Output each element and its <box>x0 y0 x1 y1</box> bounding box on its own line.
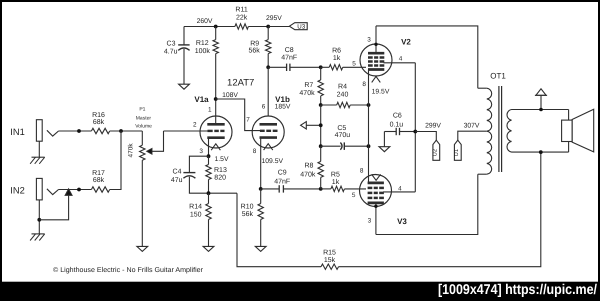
svg-text:2: 2 <box>193 122 197 129</box>
svg-text:4: 4 <box>398 185 402 192</box>
node R4-cathode bus <box>367 103 371 107</box>
wire J1 sleeve <box>38 141 40 157</box>
svg-text:47nF: 47nF <box>274 178 290 185</box>
node phase bus top <box>319 65 323 69</box>
ground C6 <box>379 147 390 152</box>
node V1a cathode 1.5V <box>207 154 211 158</box>
svg-text:470k: 470k <box>127 143 134 158</box>
svg-text:295V: 295V <box>266 15 282 22</box>
svg-text:© Lighthouse Electric - No Fri: © Lighthouse Electric - No Frills Guitar… <box>53 266 204 274</box>
svg-text:1.5V: 1.5V <box>215 156 229 163</box>
svg-text:56k: 56k <box>249 46 261 54</box>
svg-text:260V: 260V <box>197 18 213 25</box>
svg-text:R13: R13 <box>214 167 227 174</box>
svg-text:R6: R6 <box>332 48 341 55</box>
svg-text:R4: R4 <box>338 84 347 91</box>
node IN2 <box>77 188 81 192</box>
wire top rail 260V-295V <box>184 26 235 28</box>
svg-text:7: 7 <box>246 117 250 124</box>
svg-text:5: 5 <box>352 192 356 199</box>
OT1 secondary winding <box>507 110 512 153</box>
svg-text:IN1: IN1 <box>10 127 24 137</box>
ground R14 <box>203 246 214 251</box>
V1b grid <box>260 130 265 132</box>
svg-text:R16: R16 <box>92 112 105 119</box>
svg-text:109.5V: 109.5V <box>262 158 284 165</box>
svg-text:1k: 1k <box>332 178 340 186</box>
resistor R8 <box>320 146 322 161</box>
wire to U2 <box>415 132 436 141</box>
svg-text:3: 3 <box>367 37 371 44</box>
wire J2 switch to ground <box>39 195 68 220</box>
wire R16 to P1 <box>110 130 143 132</box>
node C5 junction <box>319 144 323 148</box>
resistor R9 <box>267 27 269 40</box>
svg-text:Volume: Volume <box>135 124 152 130</box>
node C8-R9 <box>266 65 270 69</box>
connector U2 <box>433 140 440 160</box>
wire bus mid <box>320 105 322 146</box>
svg-text:R9: R9 <box>250 40 259 47</box>
resistor R10 <box>260 189 262 204</box>
OT1 primary lead top <box>478 87 487 89</box>
P1 wiper <box>147 148 152 154</box>
svg-text:4.7u: 4.7u <box>164 48 178 55</box>
chassis ground J2 <box>32 233 45 235</box>
resistor R15 <box>321 264 339 269</box>
capacitor C5 <box>321 145 341 147</box>
OT1 core <box>498 86 500 172</box>
svg-text:5: 5 <box>352 60 356 67</box>
wire 108V to V1b grid <box>216 99 260 131</box>
svg-text:R15: R15 <box>323 250 336 257</box>
resistor R11 <box>235 24 249 29</box>
wire C4 bottom <box>189 177 237 193</box>
node R16-R17 junction <box>119 129 123 133</box>
wire secondary bottom <box>512 151 569 153</box>
connector flag left arrow <box>301 122 307 129</box>
svg-text:R8: R8 <box>304 162 313 169</box>
svg-text:47nF: 47nF <box>281 54 297 61</box>
node R7-R4 <box>319 103 323 107</box>
capacitor C6 <box>384 131 396 133</box>
V3 heater notch <box>372 174 381 180</box>
flag output triangle <box>540 95 542 109</box>
svg-text:150: 150 <box>190 211 202 218</box>
svg-text:47u: 47u <box>171 177 183 184</box>
svg-text:R5: R5 <box>331 171 340 178</box>
connector U1 <box>454 140 461 160</box>
node screen-C6-U2 <box>413 130 417 134</box>
svg-text:19.5V: 19.5V <box>372 89 390 96</box>
wire V1b plate feed <box>267 67 269 116</box>
potentiometer P1 470k <box>141 131 143 145</box>
resistor R16 <box>91 128 109 133</box>
capacitor C4 <box>183 172 195 174</box>
svg-text:108V: 108V <box>222 92 238 99</box>
V1b cathode lead pin 8 <box>260 138 262 189</box>
svg-text:470k: 470k <box>299 89 315 97</box>
resistor R17 <box>91 187 109 192</box>
svg-text:4: 4 <box>399 56 403 63</box>
tube V1b envelope <box>252 116 284 148</box>
V2 cathode <box>368 68 384 71</box>
svg-text:R14: R14 <box>189 203 202 210</box>
svg-text:68k: 68k <box>93 118 105 126</box>
svg-text:1k: 1k <box>333 54 341 62</box>
svg-text:240: 240 <box>337 91 349 98</box>
svg-text:R10: R10 <box>241 203 254 210</box>
svg-text:1: 1 <box>208 107 212 114</box>
capacitor C9 <box>261 188 280 190</box>
svg-text:185V: 185V <box>275 104 291 111</box>
wire C6 to ground <box>383 132 385 147</box>
svg-text:C6: C6 <box>393 112 402 119</box>
V2 plate <box>368 52 384 55</box>
node V1b cathode <box>259 187 263 191</box>
svg-text:22k: 22k <box>236 14 248 22</box>
wire secondary top <box>512 109 569 111</box>
ground P1 <box>137 246 148 251</box>
svg-text:C4: C4 <box>173 168 182 175</box>
capacitor C3 <box>178 44 189 46</box>
node 295V <box>266 25 270 29</box>
V2 heater notch <box>372 76 381 82</box>
svg-text:[1009x474] https://upic.me/: [1009x474] https://upic.me/ <box>438 282 597 298</box>
svg-text:C9: C9 <box>278 169 287 176</box>
wire IN1 to R16 <box>59 130 92 132</box>
chassis ground J1 <box>32 156 45 158</box>
wire cathode to C4 <box>189 156 208 172</box>
svg-text:C3: C3 <box>167 41 176 48</box>
resistor R5 <box>331 186 345 191</box>
wire V2 screen pin 4 <box>384 62 416 64</box>
wire OT1 tap to U1 <box>458 131 487 140</box>
V3 plate lead pin 3 <box>375 203 377 235</box>
svg-text:U3: U3 <box>297 24 305 31</box>
svg-text:C8: C8 <box>285 47 294 54</box>
svg-text:R11: R11 <box>235 7 247 14</box>
OT1 primary lead bottom <box>478 173 487 175</box>
V1a plate lead pin 1 <box>215 99 217 124</box>
node C5-cathode bus <box>367 144 371 148</box>
jack J2 contact <box>47 189 59 195</box>
resistor R13 <box>208 156 210 164</box>
jack J1 contact <box>47 130 59 136</box>
wire feedback to speaker <box>339 152 541 267</box>
svg-text:820: 820 <box>214 174 226 181</box>
svg-text:IN2: IN2 <box>10 185 24 195</box>
resistor R12 <box>215 27 217 40</box>
node R13-R14-C4 <box>207 191 211 195</box>
V1b cathode <box>260 136 278 139</box>
svg-text:56k: 56k <box>242 210 254 218</box>
svg-text:V1b: V1b <box>275 95 290 104</box>
svg-text:100k: 100k <box>195 47 211 55</box>
node flag junction <box>319 123 323 127</box>
node 108V <box>214 97 218 101</box>
resistor R6 <box>321 66 330 68</box>
V2 grids <box>368 56 373 59</box>
node feedback tap <box>539 150 543 154</box>
wire C3 bottom <box>183 49 185 84</box>
OT1 primary winding <box>487 88 492 174</box>
flag J2 switch triangle <box>65 189 72 195</box>
V1a grid <box>208 130 213 132</box>
wire C3 top <box>183 27 185 45</box>
svg-text:299V: 299V <box>425 123 441 130</box>
wire cathode bus <box>368 69 370 183</box>
svg-text:V1a: V1a <box>194 95 209 104</box>
svg-text:3: 3 <box>368 218 372 225</box>
jack J2 tip <box>36 178 42 200</box>
svg-text:U2: U2 <box>432 149 439 156</box>
wire V3 screen pin 4 <box>383 191 415 193</box>
resistor R4 <box>321 104 337 106</box>
svg-text:12AT7: 12AT7 <box>227 77 254 88</box>
wire wiper to V1a grid <box>164 130 209 132</box>
wire J2 sleeve <box>38 200 40 234</box>
node J2 ground junction <box>37 218 41 222</box>
wire R17 up to junction <box>110 131 121 190</box>
svg-text:Master: Master <box>136 116 152 122</box>
V1a cathode <box>207 136 224 139</box>
wire to U3 <box>268 26 289 28</box>
wire screen bus <box>414 63 416 192</box>
svg-text:P1: P1 <box>139 107 145 113</box>
wire V2 plate to OT1 <box>376 26 478 88</box>
svg-text:R7: R7 <box>304 82 313 89</box>
wire feedback down <box>237 193 321 267</box>
svg-text:0.1u: 0.1u <box>390 121 404 128</box>
jack J1 tip <box>36 120 42 142</box>
V1a plate <box>207 123 224 126</box>
node C9-R8-R5 <box>319 187 323 191</box>
wire IN2 to R17 <box>59 189 92 191</box>
tube V1a envelope <box>200 116 232 148</box>
svg-text:6: 6 <box>262 104 266 111</box>
svg-text:15k: 15k <box>324 256 336 264</box>
svg-text:V2: V2 <box>401 38 411 47</box>
speaker LS1 <box>568 110 570 153</box>
svg-text:8: 8 <box>362 81 366 88</box>
svg-text:R17: R17 <box>92 170 105 177</box>
svg-text:470k: 470k <box>300 170 316 178</box>
V1b plate <box>260 123 278 126</box>
svg-text:3: 3 <box>199 148 203 155</box>
svg-text:C5: C5 <box>337 125 346 132</box>
svg-text:8: 8 <box>360 168 364 175</box>
node IN1 <box>77 129 81 133</box>
tube V3 envelope <box>360 175 392 207</box>
svg-text:470u: 470u <box>335 132 351 139</box>
tube V2 envelope <box>360 44 392 76</box>
svg-text:V3: V3 <box>397 217 407 226</box>
svg-text:307V: 307V <box>464 123 480 130</box>
V1a cathode lead pin 3 <box>208 138 210 157</box>
svg-text:U1: U1 <box>454 149 460 156</box>
svg-text:OT1: OT1 <box>490 71 506 80</box>
capacitor C8 <box>268 66 286 68</box>
svg-text:68k: 68k <box>93 176 105 184</box>
V2 plate lead pin 3 <box>375 26 377 54</box>
V1a heater notch <box>211 144 220 150</box>
V3 plate <box>368 202 384 205</box>
resistor R14 <box>208 193 210 203</box>
V3 grids <box>368 187 373 190</box>
ground R10 <box>255 246 266 251</box>
ground C3 <box>179 84 190 89</box>
resistor R7 <box>320 67 322 80</box>
connector U3 <box>289 23 307 30</box>
V3 cathode <box>368 182 384 185</box>
V1b heater notch <box>264 144 273 150</box>
svg-text:8: 8 <box>253 148 257 155</box>
svg-text:R12: R12 <box>196 40 209 47</box>
node 260V <box>214 25 218 29</box>
wire V3 plate to OT1 <box>376 174 478 234</box>
